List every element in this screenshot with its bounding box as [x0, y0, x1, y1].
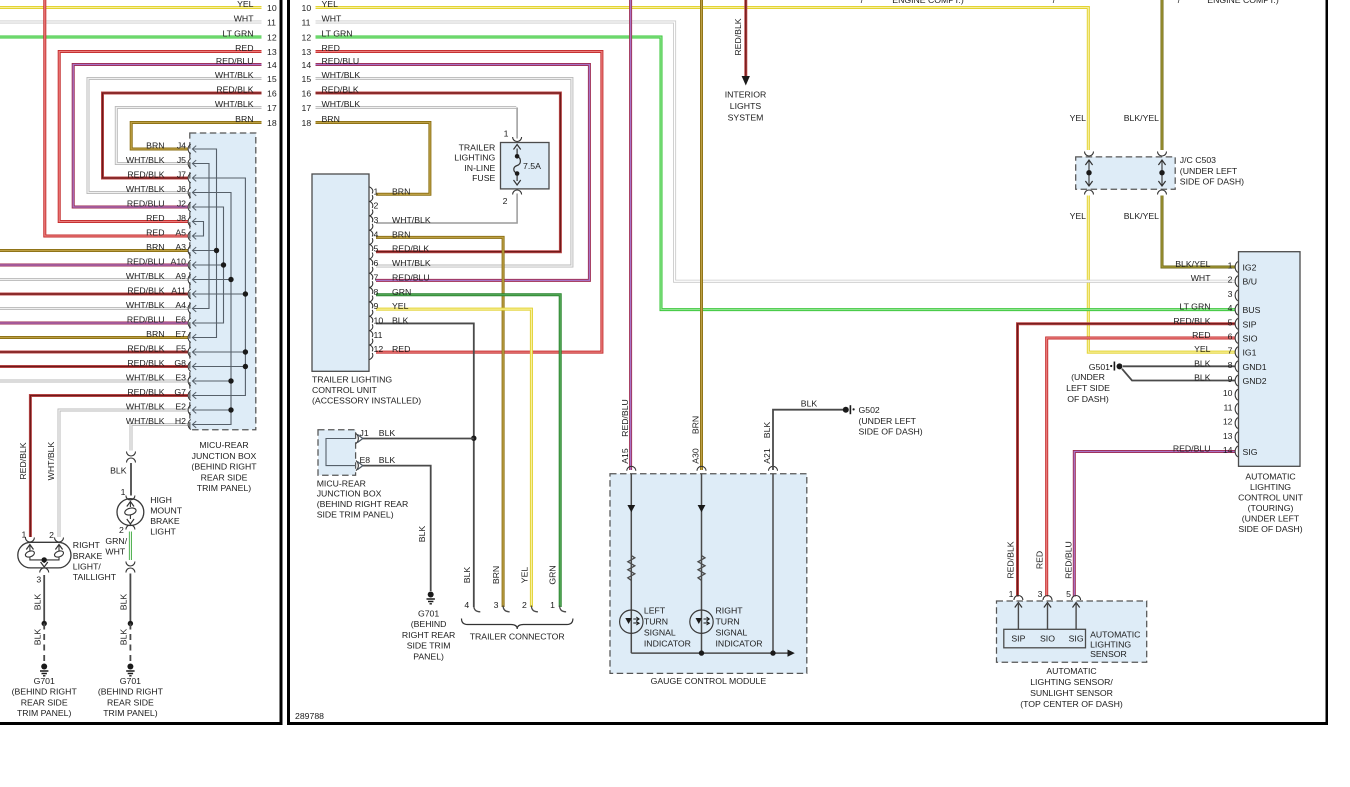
wire RED/BLU from top to gauge A15	[629, 0, 632, 470]
wire BLK MICU J1 to junction	[363, 438, 474, 440]
connector pin terminals of MICU-REAR junction box	[188, 144, 196, 430]
wire RED/BLU row 14 to pin J2	[73, 65, 261, 208]
gauge internal A21 chain	[772, 474, 774, 653]
svg-text:SIDE TRIM PANEL): SIDE TRIM PANEL)	[317, 510, 394, 520]
svg-text:RED/BLU: RED/BLU	[127, 199, 165, 209]
high mount filament internals	[129, 502, 131, 508]
wire BLK trailer unit pin 10 to connector pin 4	[376, 323, 474, 607]
svg-text:TRIM PANEL): TRIM PANEL)	[197, 483, 251, 493]
svg-text:BLK: BLK	[32, 594, 42, 611]
svg-text:BLK: BLK	[417, 526, 427, 543]
svg-text:BLK: BLK	[379, 455, 396, 465]
wire WHT/BLK row 15 to pin J6	[88, 79, 262, 193]
wire BLK ALC pin 9 GND2 to ground G501	[1122, 369, 1235, 381]
svg-text:17: 17	[267, 103, 277, 113]
svg-text:J/C C503: J/C C503	[1180, 155, 1216, 165]
svg-text:GRN/: GRN/	[105, 536, 127, 546]
gauge control module box	[610, 474, 807, 674]
svg-text:RED/BLK: RED/BLK	[127, 170, 164, 180]
svg-text:BRN: BRN	[392, 186, 410, 196]
label AUTOMATIC LIGHTING SENSOR	[1090, 630, 1140, 660]
taillight pin 2 terminal arc	[55, 538, 64, 543]
wire GRN trailer unit pin 8 to connector pin 1	[376, 295, 560, 607]
svg-text:RED/BLU: RED/BLU	[322, 56, 360, 66]
wire YEL row 10 down to J/C C503	[316, 8, 1089, 151]
lamp right brake light/taillight outline	[18, 542, 71, 568]
wire BLK high mount to junction	[129, 574, 131, 624]
svg-text:BLK: BLK	[32, 629, 42, 646]
wire REDBLK from page edge to pin F5	[0, 351, 188, 354]
wire LT GRN row 12 to ALC pin 4 BUS	[316, 37, 1236, 310]
svg-text:16: 16	[302, 89, 312, 99]
junction node A11	[243, 291, 248, 296]
svg-text:RED: RED	[146, 228, 164, 238]
wire BRN row 18 to pin J4	[131, 123, 261, 150]
svg-text:CONTROL UNIT: CONTROL UNIT	[1238, 492, 1304, 502]
svg-text:MOUNT: MOUNT	[150, 505, 183, 515]
svg-text:RED/BLU: RED/BLU	[127, 257, 165, 267]
svg-text:SUNLIGHT SENSOR: SUNLIGHT SENSOR	[1030, 688, 1113, 698]
svg-text:JUNCTION BOX: JUNCTION BOX	[317, 489, 382, 499]
junction node C503 BLK/YEL	[1159, 170, 1164, 175]
svg-text:1: 1	[374, 186, 379, 196]
svg-text:A11: A11	[171, 286, 186, 296]
wire YEL trailer unit pin 9 to connector pin 2	[376, 309, 531, 607]
svg-text:BUS: BUS	[1243, 305, 1261, 315]
svg-text:11: 11	[267, 18, 276, 28]
svg-text:J2: J2	[177, 199, 186, 209]
svg-text:1: 1	[1009, 589, 1014, 599]
svg-text:5: 5	[1066, 589, 1071, 599]
ground G501 symbol	[1110, 365, 1112, 367]
svg-text:WHT: WHT	[105, 547, 125, 557]
trailer connector terminals	[464, 600, 566, 612]
wire BRN from top to gauge A30	[700, 0, 703, 470]
svg-text:G701: G701	[418, 608, 439, 618]
svg-text:RED/BLK: RED/BLK	[216, 85, 253, 95]
svg-text:GRN: GRN	[392, 287, 411, 297]
svg-text:4: 4	[1228, 303, 1233, 313]
wire BLK ALC pin 8 GND1 to ground G501	[1123, 365, 1235, 367]
svg-text:(UNDER LEFT: (UNDER LEFT	[1180, 166, 1238, 176]
svg-text:5: 5	[374, 244, 379, 254]
svg-text:BLK: BLK	[118, 594, 128, 611]
svg-text:5: 5	[1228, 317, 1233, 327]
svg-text:(UNDER LEFT: (UNDER LEFT	[1242, 513, 1300, 523]
svg-text:3: 3	[494, 600, 499, 610]
MICU junction box 2 pin J1	[356, 434, 358, 444]
svg-text:2: 2	[49, 530, 54, 540]
svg-text:2: 2	[1228, 275, 1233, 285]
svg-text:SIP: SIP	[1243, 319, 1257, 329]
svg-text:RED: RED	[1035, 551, 1045, 569]
svg-text:LT GRN: LT GRN	[322, 29, 353, 39]
high mount pin 1 terminal arc	[126, 496, 135, 501]
svg-text:INTERIOR: INTERIOR	[725, 90, 767, 100]
svg-text:GND2: GND2	[1243, 376, 1267, 386]
svg-text:12: 12	[267, 33, 277, 43]
svg-text:SYSTEM: SYSTEM	[728, 113, 764, 123]
svg-text:1: 1	[504, 129, 509, 139]
lamp high mount brake light outline	[117, 499, 144, 526]
svg-text:2: 2	[119, 525, 124, 535]
wire RED/BLU ALC pin 14 SIG to sensor pin 5	[1074, 451, 1235, 596]
junction connector C503 terminals	[1085, 152, 1094, 157]
svg-text:REAR SIDE: REAR SIDE	[107, 697, 154, 707]
svg-text:RED/BLK: RED/BLK	[18, 442, 28, 479]
junction node E2	[228, 407, 233, 412]
svg-text:13: 13	[267, 47, 277, 57]
svg-text:TURN: TURN	[716, 617, 740, 627]
diode arrow right turn chain	[698, 505, 706, 512]
svg-text:RED/BLK: RED/BLK	[1173, 316, 1210, 326]
svg-text:JUNCTION BOX: JUNCTION BOX	[192, 451, 257, 461]
label ground G502	[859, 405, 923, 437]
svg-text:RED/BLK: RED/BLK	[322, 85, 359, 95]
svg-text:WHT: WHT	[234, 14, 254, 24]
svg-text:SIG: SIG	[1243, 447, 1258, 457]
svg-text:LT GRN: LT GRN	[1179, 302, 1210, 312]
svg-text:TURN: TURN	[644, 617, 668, 627]
svg-text:G701: G701	[120, 676, 141, 686]
resistor right turn chain	[698, 556, 705, 581]
svg-text:REAR SIDE: REAR SIDE	[201, 472, 248, 482]
svg-text:WHT: WHT	[322, 14, 342, 24]
svg-text:SIDE OF DASH): SIDE OF DASH)	[1180, 176, 1244, 186]
svg-text:RED: RED	[1192, 330, 1210, 340]
svg-text:ENGINE COMPT.): ENGINE COMPT.)	[1207, 0, 1279, 5]
wire BLK splice to high mount brake light pin 1	[130, 463, 132, 496]
svg-text:1: 1	[1228, 261, 1233, 271]
high mount pin 2 terminal arc	[126, 525, 135, 530]
wire BRN from page edge to pin A3	[0, 249, 188, 252]
svg-text:RED/BLK: RED/BLK	[127, 344, 164, 354]
svg-text:G8: G8	[174, 358, 186, 368]
junction node C503 YEL	[1086, 170, 1091, 175]
svg-text:3: 3	[374, 215, 379, 225]
svg-text:18: 18	[302, 118, 312, 128]
svg-text:TRIM PANEL): TRIM PANEL)	[17, 708, 71, 718]
svg-text:WHT/BLK: WHT/BLK	[126, 373, 165, 383]
svg-text:LIGHTING: LIGHTING	[1250, 482, 1291, 492]
svg-text:BRN: BRN	[146, 141, 164, 151]
wire RED/BLK row 16 to trailer unit pin 5	[316, 93, 561, 252]
svg-text:RIGHT: RIGHT	[716, 606, 744, 616]
label TRAILER LIGHTING IN-LINE FUSE	[454, 143, 495, 184]
svg-text:E2: E2	[175, 402, 186, 412]
svg-text:J7: J7	[177, 170, 186, 180]
svg-text:(TOP CENTER OF DASH): (TOP CENTER OF DASH)	[1020, 699, 1123, 709]
automatic lighting sensor outer box	[997, 601, 1147, 662]
svg-text:CONTROL UNIT: CONTROL UNIT	[312, 385, 378, 395]
svg-text:BLK/YEL: BLK/YEL	[1124, 113, 1159, 123]
label ground G701 right page	[402, 608, 455, 661]
svg-text:8: 8	[1228, 360, 1233, 370]
svg-text:WHT/BLK: WHT/BLK	[392, 258, 431, 268]
sensor internal wires	[1018, 604, 1076, 629]
svg-text:3: 3	[1038, 589, 1043, 599]
svg-text:11: 11	[1223, 402, 1232, 412]
wire RED/BLU row 14 to trailer unit pin 7	[316, 65, 590, 281]
trailer lighting control unit pins	[369, 186, 430, 359]
svg-text:AUTOMATIC: AUTOMATIC	[1090, 630, 1140, 640]
svg-text:LIGHT/: LIGHT/	[73, 561, 102, 571]
svg-text:J1: J1	[360, 428, 369, 438]
svg-text:9: 9	[374, 301, 379, 311]
wire BLK A21 to ground G502	[773, 410, 843, 470]
gauge module pin arcs	[627, 466, 636, 471]
svg-text:YEL: YEL	[1070, 113, 1087, 123]
svg-text:BLK: BLK	[801, 399, 818, 409]
svg-text:12: 12	[374, 344, 384, 354]
svg-text:12: 12	[1223, 417, 1233, 427]
MICU junction box 2 pin E8	[356, 461, 358, 471]
svg-text:18: 18	[267, 118, 277, 128]
arrow to interior lights system	[742, 76, 750, 86]
svg-text:11: 11	[302, 18, 311, 28]
svg-text:RED: RED	[146, 213, 164, 223]
wire REDBLU from page edge to pin E6	[0, 322, 188, 325]
wire WHTBLK from page edge to pin E3	[0, 380, 188, 383]
svg-text:SIG: SIG	[1069, 634, 1084, 644]
fuse element 7.5A	[516, 149, 518, 157]
ground G701 left	[41, 664, 47, 670]
svg-text:J5: J5	[177, 155, 186, 165]
gauge bottom rail	[631, 652, 787, 654]
svg-text:BRN: BRN	[235, 114, 253, 124]
svg-text:BLK/YEL: BLK/YEL	[1175, 259, 1210, 269]
svg-text:2: 2	[374, 201, 379, 211]
wire WHT/BLK row 15 to trailer unit pin 6	[316, 79, 572, 267]
svg-text:OF DASH): OF DASH)	[1067, 394, 1109, 404]
wire RED/BLK row 16 to pin J7	[103, 93, 262, 178]
svg-text:2: 2	[503, 196, 508, 206]
svg-text:G501: G501	[1089, 362, 1110, 372]
svg-text:WHT/BLK: WHT/BLK	[126, 300, 165, 310]
svg-text:8: 8	[374, 287, 379, 297]
label J/C C503 caption	[1180, 155, 1244, 186]
svg-text:WHT/BLK: WHT/BLK	[215, 99, 254, 109]
label HIGH MOUNT BRAKE LIGHT	[150, 495, 183, 537]
svg-text:TRAILER CONNECTOR: TRAILER CONNECTOR	[470, 632, 565, 642]
svg-text:SIP: SIP	[1011, 634, 1025, 644]
svg-text:E6: E6	[175, 315, 186, 325]
svg-text:ENGINE COMPT.): ENGINE COMPT.)	[892, 0, 964, 5]
svg-text:BLK: BLK	[392, 315, 409, 325]
svg-text:16: 16	[267, 89, 277, 99]
left page wire row labels 10-18	[215, 0, 277, 128]
svg-text:10: 10	[267, 3, 277, 13]
wire GRN/WHT high mount pin 2 to splice	[129, 532, 132, 561]
wire RED row 13 to trailer unit pin 12	[316, 52, 602, 353]
svg-text:TRAILER: TRAILER	[459, 143, 496, 153]
label RIGHT BRAKE LIGHT/TAILLIGHT	[73, 540, 117, 582]
junction box 2 internal link J1-E8	[326, 439, 356, 466]
diode arrow left turn chain	[627, 505, 635, 512]
svg-text:LIGHTS: LIGHTS	[730, 101, 762, 111]
svg-text:LEFT: LEFT	[644, 606, 666, 616]
wire LT GRN row 12 left page	[0, 36, 262, 39]
wire BLK/YEL from top down to J/C C503	[1161, 0, 1164, 150]
svg-text:TRIM PANEL): TRIM PANEL)	[103, 708, 157, 718]
svg-text:WHT/BLK: WHT/BLK	[46, 441, 56, 480]
junction node A9	[228, 277, 233, 282]
svg-text:BRAKE: BRAKE	[150, 516, 180, 526]
svg-text:SIGNAL: SIGNAL	[644, 628, 676, 638]
right page wire row labels 10-18	[302, 0, 361, 128]
svg-text:E7: E7	[175, 329, 186, 339]
svg-text:G502: G502	[859, 405, 880, 415]
svg-text:BRN: BRN	[322, 114, 340, 124]
svg-text:RED/BLK: RED/BLK	[127, 286, 164, 296]
svg-text:BLK: BLK	[462, 567, 472, 584]
wire RED ALC pin 6 SIO to sensor pin 3	[1047, 338, 1235, 597]
wire RED/BLK ALC pin 5 SIP to sensor pin 1	[1018, 324, 1236, 597]
wire BLK dashed to ground G701 mid	[129, 624, 131, 664]
svg-text:G701: G701	[34, 676, 55, 686]
svg-text:WHT/BLK: WHT/BLK	[126, 402, 165, 412]
wire BRN trailer unit pin 4 to connector pin 3	[376, 237, 503, 607]
junction node F5	[243, 349, 248, 354]
ground G701 mid	[127, 664, 133, 670]
pin labels of MICU-REAR junction box	[126, 141, 186, 427]
svg-text:RED/BLK: RED/BLK	[392, 244, 429, 254]
gauge internal left turn chain	[630, 474, 632, 653]
svg-text:4: 4	[464, 600, 469, 610]
svg-text:BRAKE: BRAKE	[73, 551, 103, 561]
svg-text:15: 15	[302, 74, 312, 84]
wire WHT/BLK pin H2 down to splice	[131, 425, 188, 451]
label RIGHT TURN SIGNAL INDICATOR	[716, 606, 763, 649]
svg-text:SIDE TRIM: SIDE TRIM	[407, 641, 451, 651]
svg-text:LIGHTING SENSOR/: LIGHTING SENSOR/	[1030, 677, 1113, 687]
taillight pin 1 terminal arc	[25, 538, 34, 543]
svg-text:10: 10	[374, 315, 384, 325]
trailer lighting control unit box	[312, 174, 369, 371]
svg-text:A3: A3	[175, 242, 186, 252]
svg-text:H2: H2	[175, 416, 186, 426]
wire BLK MICU E8 to ground G701	[363, 466, 431, 591]
automatic lighting sensor inner box	[1004, 629, 1086, 648]
svg-text:AUTOMATIC: AUTOMATIC	[1046, 666, 1096, 676]
svg-text:SIDE OF DASH): SIDE OF DASH)	[859, 427, 923, 437]
wire WHT/BLK pin E2 to taillight pin 2	[59, 410, 188, 537]
junction connector J/C C503 box	[1076, 157, 1176, 189]
ground G502 symbol	[843, 407, 849, 413]
svg-text:IG2: IG2	[1243, 263, 1257, 273]
label INTERIOR LIGHTS SYSTEM	[725, 90, 767, 123]
svg-text:LIGHT: LIGHT	[150, 527, 176, 537]
junction box internal link J7-A11-F5-G8-G7	[193, 178, 246, 396]
svg-text:A10: A10	[171, 257, 187, 267]
svg-text:RED/BLU: RED/BLU	[127, 315, 165, 325]
svg-text:1: 1	[21, 530, 26, 540]
svg-text:SIO: SIO	[1040, 634, 1055, 644]
svg-text:4: 4	[374, 229, 379, 239]
svg-text:14: 14	[1223, 445, 1233, 455]
wire BLK taillight pin 3 to junction	[43, 575, 45, 624]
svg-text:RED/BLK: RED/BLK	[1006, 541, 1016, 578]
svg-text:9: 9	[1228, 374, 1233, 384]
svg-text:A4: A4	[175, 300, 186, 310]
svg-text:BLK: BLK	[118, 629, 128, 646]
MICU-REAR junction box 2	[318, 430, 356, 475]
wire WHT/BLK row 17 to pin J5	[116, 108, 261, 164]
svg-text:SENSOR: SENSOR	[1090, 649, 1127, 659]
svg-text:1: 1	[121, 487, 126, 497]
svg-text:WHT/BLK: WHT/BLK	[126, 155, 165, 165]
svg-text:12: 12	[302, 33, 312, 43]
svg-text:3: 3	[36, 574, 41, 584]
svg-text:10: 10	[302, 3, 312, 13]
svg-text:AUTOMATIC: AUTOMATIC	[1245, 471, 1295, 481]
svg-text:14: 14	[267, 60, 277, 70]
junction node rail A30	[699, 650, 704, 655]
gauge rail arrow	[788, 650, 795, 657]
automatic lighting control unit pins	[1173, 259, 1267, 457]
wire WHTBLK from page edge to pin A9	[0, 278, 188, 281]
gauge internal right turn chain	[701, 474, 703, 653]
svg-text:6: 6	[374, 258, 379, 268]
wire BLK/YEL from J/C C503 to ALC pin 1 IG2	[1162, 196, 1235, 268]
wire WHT/BLK fuse pin 2 to trailer unit pin 3	[376, 194, 517, 224]
junction node high mount ground	[128, 621, 133, 626]
svg-text:WHT/BLK: WHT/BLK	[392, 215, 431, 225]
svg-text:YEL: YEL	[392, 301, 409, 311]
svg-text:MICU-REAR: MICU-REAR	[199, 440, 248, 450]
svg-text:A15: A15	[620, 448, 630, 464]
svg-text:RED/BLK: RED/BLK	[127, 358, 164, 368]
svg-text:(BEHIND RIGHT: (BEHIND RIGHT	[191, 462, 257, 472]
svg-text:7: 7	[1228, 346, 1233, 356]
wire RED/BLK to interior lights system	[744, 0, 747, 76]
svg-text:BRN: BRN	[491, 566, 501, 584]
wire YEL from J/C C503 to ALC pin 7 IG1	[1088, 196, 1235, 353]
svg-text:LT GRN: LT GRN	[222, 29, 253, 39]
junction node A10	[221, 262, 226, 267]
svg-text:WHT/BLK: WHT/BLK	[126, 184, 165, 194]
svg-text:A21: A21	[762, 448, 772, 464]
wire REDBLU from page edge to pin A10	[0, 264, 188, 267]
svg-text:15: 15	[267, 74, 277, 84]
junction node E3	[228, 378, 233, 383]
svg-text:WHT/BLK: WHT/BLK	[126, 271, 165, 281]
wire REDBLK from page edge to pin G8	[0, 365, 188, 368]
wire RED vertical to pin A5	[45, 0, 188, 236]
svg-text:F5: F5	[176, 344, 186, 354]
wire BRN row 18 to trailer unit pin 1	[316, 123, 430, 195]
label ground G701 mid	[98, 676, 164, 718]
wire RED/BLK pin G7 to taillight pin 1	[30, 396, 188, 538]
svg-text:RED/BLU: RED/BLU	[216, 56, 254, 66]
svg-text:10: 10	[1223, 388, 1233, 398]
svg-text:BRN: BRN	[691, 416, 701, 434]
svg-text:RIGHT: RIGHT	[73, 540, 101, 550]
svg-text:A5: A5	[175, 228, 186, 238]
svg-text:IN-LINE: IN-LINE	[464, 163, 495, 173]
svg-text:YEL: YEL	[519, 567, 529, 584]
svg-text:E8: E8	[360, 455, 371, 465]
svg-text:REAR SIDE: REAR SIDE	[21, 697, 68, 707]
wire WHT row 11 left page	[0, 21, 262, 24]
svg-text:FUSE: FUSE	[472, 173, 495, 183]
svg-text:TAILLIGHT: TAILLIGHT	[73, 572, 117, 582]
svg-text:GND1: GND1	[1243, 362, 1267, 372]
wire WHTBLK from page edge to pin A4	[0, 307, 188, 310]
junction node rail A21	[770, 650, 775, 655]
svg-text:SIGNAL: SIGNAL	[716, 628, 748, 638]
svg-text:BRN: BRN	[392, 229, 410, 239]
